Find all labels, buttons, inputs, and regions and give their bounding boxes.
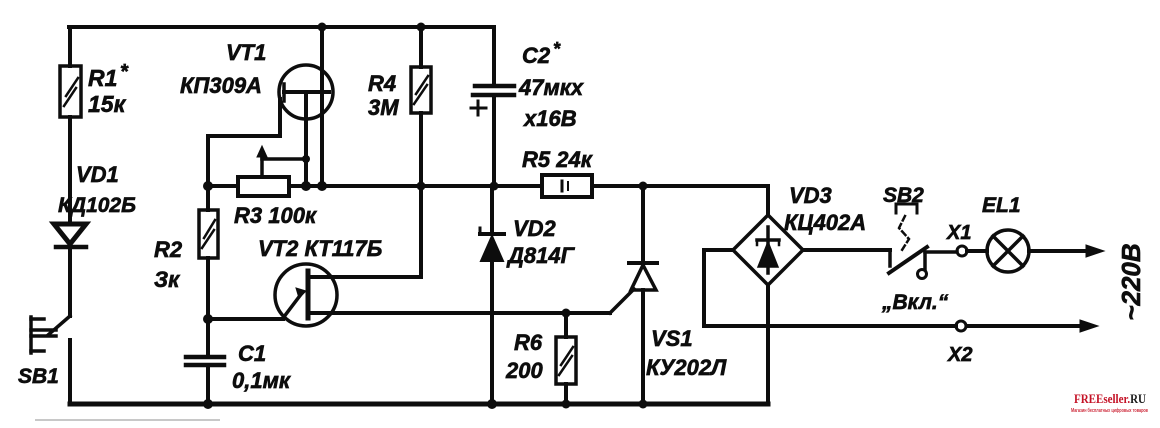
wire: SB1 lower terminal to bottom rail [68,340,72,404]
svg-text:FREEseller.RU: FREEseller.RU [1074,392,1146,406]
resistor R5 [542,175,592,197]
terminal X2 [956,321,966,331]
wire: VT1 source vertical [304,92,308,186]
thyristor VS1 [629,186,657,404]
label VD3 [784,183,866,235]
label VD1 [58,162,136,217]
label VT1 [180,40,266,98]
svg-text:0,1мк: 0,1мк [232,368,292,393]
svg-text:X2: X2 [947,344,972,366]
svg-text:*: * [553,39,561,59]
capacitor C1 [186,357,224,365]
lamp EL1 [987,230,1029,272]
svg-text:R2: R2 [154,237,183,262]
svg-text:КЦ402А: КЦ402А [784,210,866,235]
wire: gate horizontal to VT1 [208,99,280,136]
label C2 [518,39,584,131]
wire: VT1 drain/substrate vertical [320,27,324,186]
scan artifact gray line [35,419,220,421]
svg-text:VD2: VD2 [513,216,557,241]
resistor R4 [411,67,431,113]
svg-text:~220В: ~220В [1116,243,1146,320]
wire: VS1 gate diagonal [610,289,634,313]
wire: R2 to C1 [206,258,210,357]
sensor contact SB1 [31,316,70,353]
label C1 [232,341,292,393]
svg-text:EL1: EL1 [982,194,1021,217]
resistor R2 [199,210,218,258]
capacitor C2 [471,27,514,186]
wire: gate vertical of VT1 node [206,136,210,186]
node: bottom rail / VD2 [487,399,497,409]
wire: VT2 b1 horizontal to VS1 gate [308,311,610,315]
label X2 [947,344,972,366]
wire: R6 top lead [564,313,568,337]
node: R3 tap / VT1 source [302,155,310,163]
node: top rail / R4 [417,23,426,32]
label R5 [522,147,594,172]
svg-text:КУ202Л: КУ202Л [646,355,727,380]
label SB2 [881,184,949,314]
label SB1 [18,365,59,388]
svg-text:R3 100к: R3 100к [234,203,318,228]
logo FREEseller.RU [1071,392,1148,414]
wire: left drop from top rail to R1 [68,27,72,66]
node: b1 / R6 [562,309,571,318]
wire: bridge bottom lead to bottom rail [766,285,770,404]
node: bus / gate-R2 [203,181,213,191]
svg-text:С2: С2 [522,43,551,68]
transistor VT2 [275,264,337,326]
wire: R3 tap arm [257,146,306,177]
svg-text:х16В: х16В [523,106,577,131]
label R3 [234,203,318,228]
wire: top rail [69,25,494,29]
wire: VT2 b2 horizontal [310,275,421,279]
svg-text:SB1: SB1 [18,365,59,388]
label X1 [946,222,971,244]
resistor R1 [60,66,81,117]
label VS1 [646,326,727,380]
terminal X1 [957,246,967,256]
svg-text:VT2 КТ117Б: VT2 КТ117Б [258,236,382,261]
node: bottom rail / C1 [203,399,213,409]
svg-text:47мкх: 47мкх [518,75,584,100]
resistor R6 [556,337,576,384]
svg-text:С1: С1 [238,341,266,366]
svg-text:„Вкл.“: „Вкл.“ [881,291,949,314]
wire: R4 bottom lead down to VT2 b2 [419,113,423,277]
label R4 [368,71,399,120]
svg-text:R5 24к: R5 24к [522,147,594,172]
svg-text:VD3: VD3 [789,183,832,208]
svg-text:VD1: VD1 [76,162,119,187]
wire: main bus left segment [208,184,238,188]
label ~220V [1116,243,1146,320]
label R1 [88,61,129,117]
wire: R6 bottom lead [564,384,568,404]
label VD2 [506,216,576,268]
svg-text:*: * [120,61,129,83]
label R2 [154,237,183,292]
svg-text:R4: R4 [368,71,396,96]
wire: main bus R3 to R5 [289,184,542,188]
svg-text:Зк: Зк [154,267,181,292]
svg-text:X1: X1 [946,222,971,244]
wire: VD1 to SB1 [68,247,72,316]
svg-text:15к: 15к [88,91,127,117]
label VT2 [258,236,382,261]
svg-text:200: 200 [505,358,543,383]
diode VD1 [54,224,86,247]
svg-text:R6: R6 [514,330,543,355]
svg-text:3М: 3М [368,95,399,120]
label R6 [505,330,543,383]
node: bus / C2-VD2 [490,182,499,191]
wire: bottom rail [70,402,768,407]
transistor VT1 [279,65,333,119]
node: bus / VS1 [639,182,648,191]
wire: R1 to VD1 [68,117,72,222]
wire: bridge left lead down to X2 line [704,250,733,326]
svg-text:R1: R1 [88,65,117,91]
wire: X1 to EL1 [967,249,987,253]
wire: bridge right lead to SB2 [803,248,890,252]
svg-text:КП309А: КП309А [180,73,262,98]
wire: main bus R5 to bridge corner [592,186,768,215]
node: bus / VT1 source [301,181,311,191]
wire: VT2 emitter from R2-C1 node [208,317,283,321]
label EL1 [982,194,1021,217]
svg-text:Магазин бесплатных цифровых то: Магазин бесплатных цифровых товаров [1071,407,1148,414]
svg-text:VS1: VS1 [651,326,693,351]
wire: bridge top lead [766,186,770,215]
wire: EL1 to mains upper with arrow [1029,245,1104,257]
switch SB2 [889,204,957,279]
svg-text:SB2: SB2 [883,184,924,207]
wire: R4 top lead [419,27,423,67]
node: emitter / R2-C1 [203,314,213,324]
node: bus / VT1 substrate [317,181,327,191]
wire: X2 line lower mains [704,320,1098,332]
zener diode VD2 [480,186,504,404]
node: bus / R4-b2 [417,182,426,191]
node: top rail / VT1 drain [318,23,327,32]
resistor R3 [238,177,289,196]
node: bottom rail / VS1 [639,400,648,409]
wire: R2 top lead [206,186,210,210]
bridge rectifier VD3 [733,215,803,285]
wire: C1 to bottom rail [206,365,210,404]
svg-text:КД102Б: КД102Б [58,194,136,217]
svg-text:VT1: VT1 [226,40,266,65]
svg-text:Д814Г: Д814Г [506,243,576,268]
node: bottom rail / R6 [562,400,571,409]
